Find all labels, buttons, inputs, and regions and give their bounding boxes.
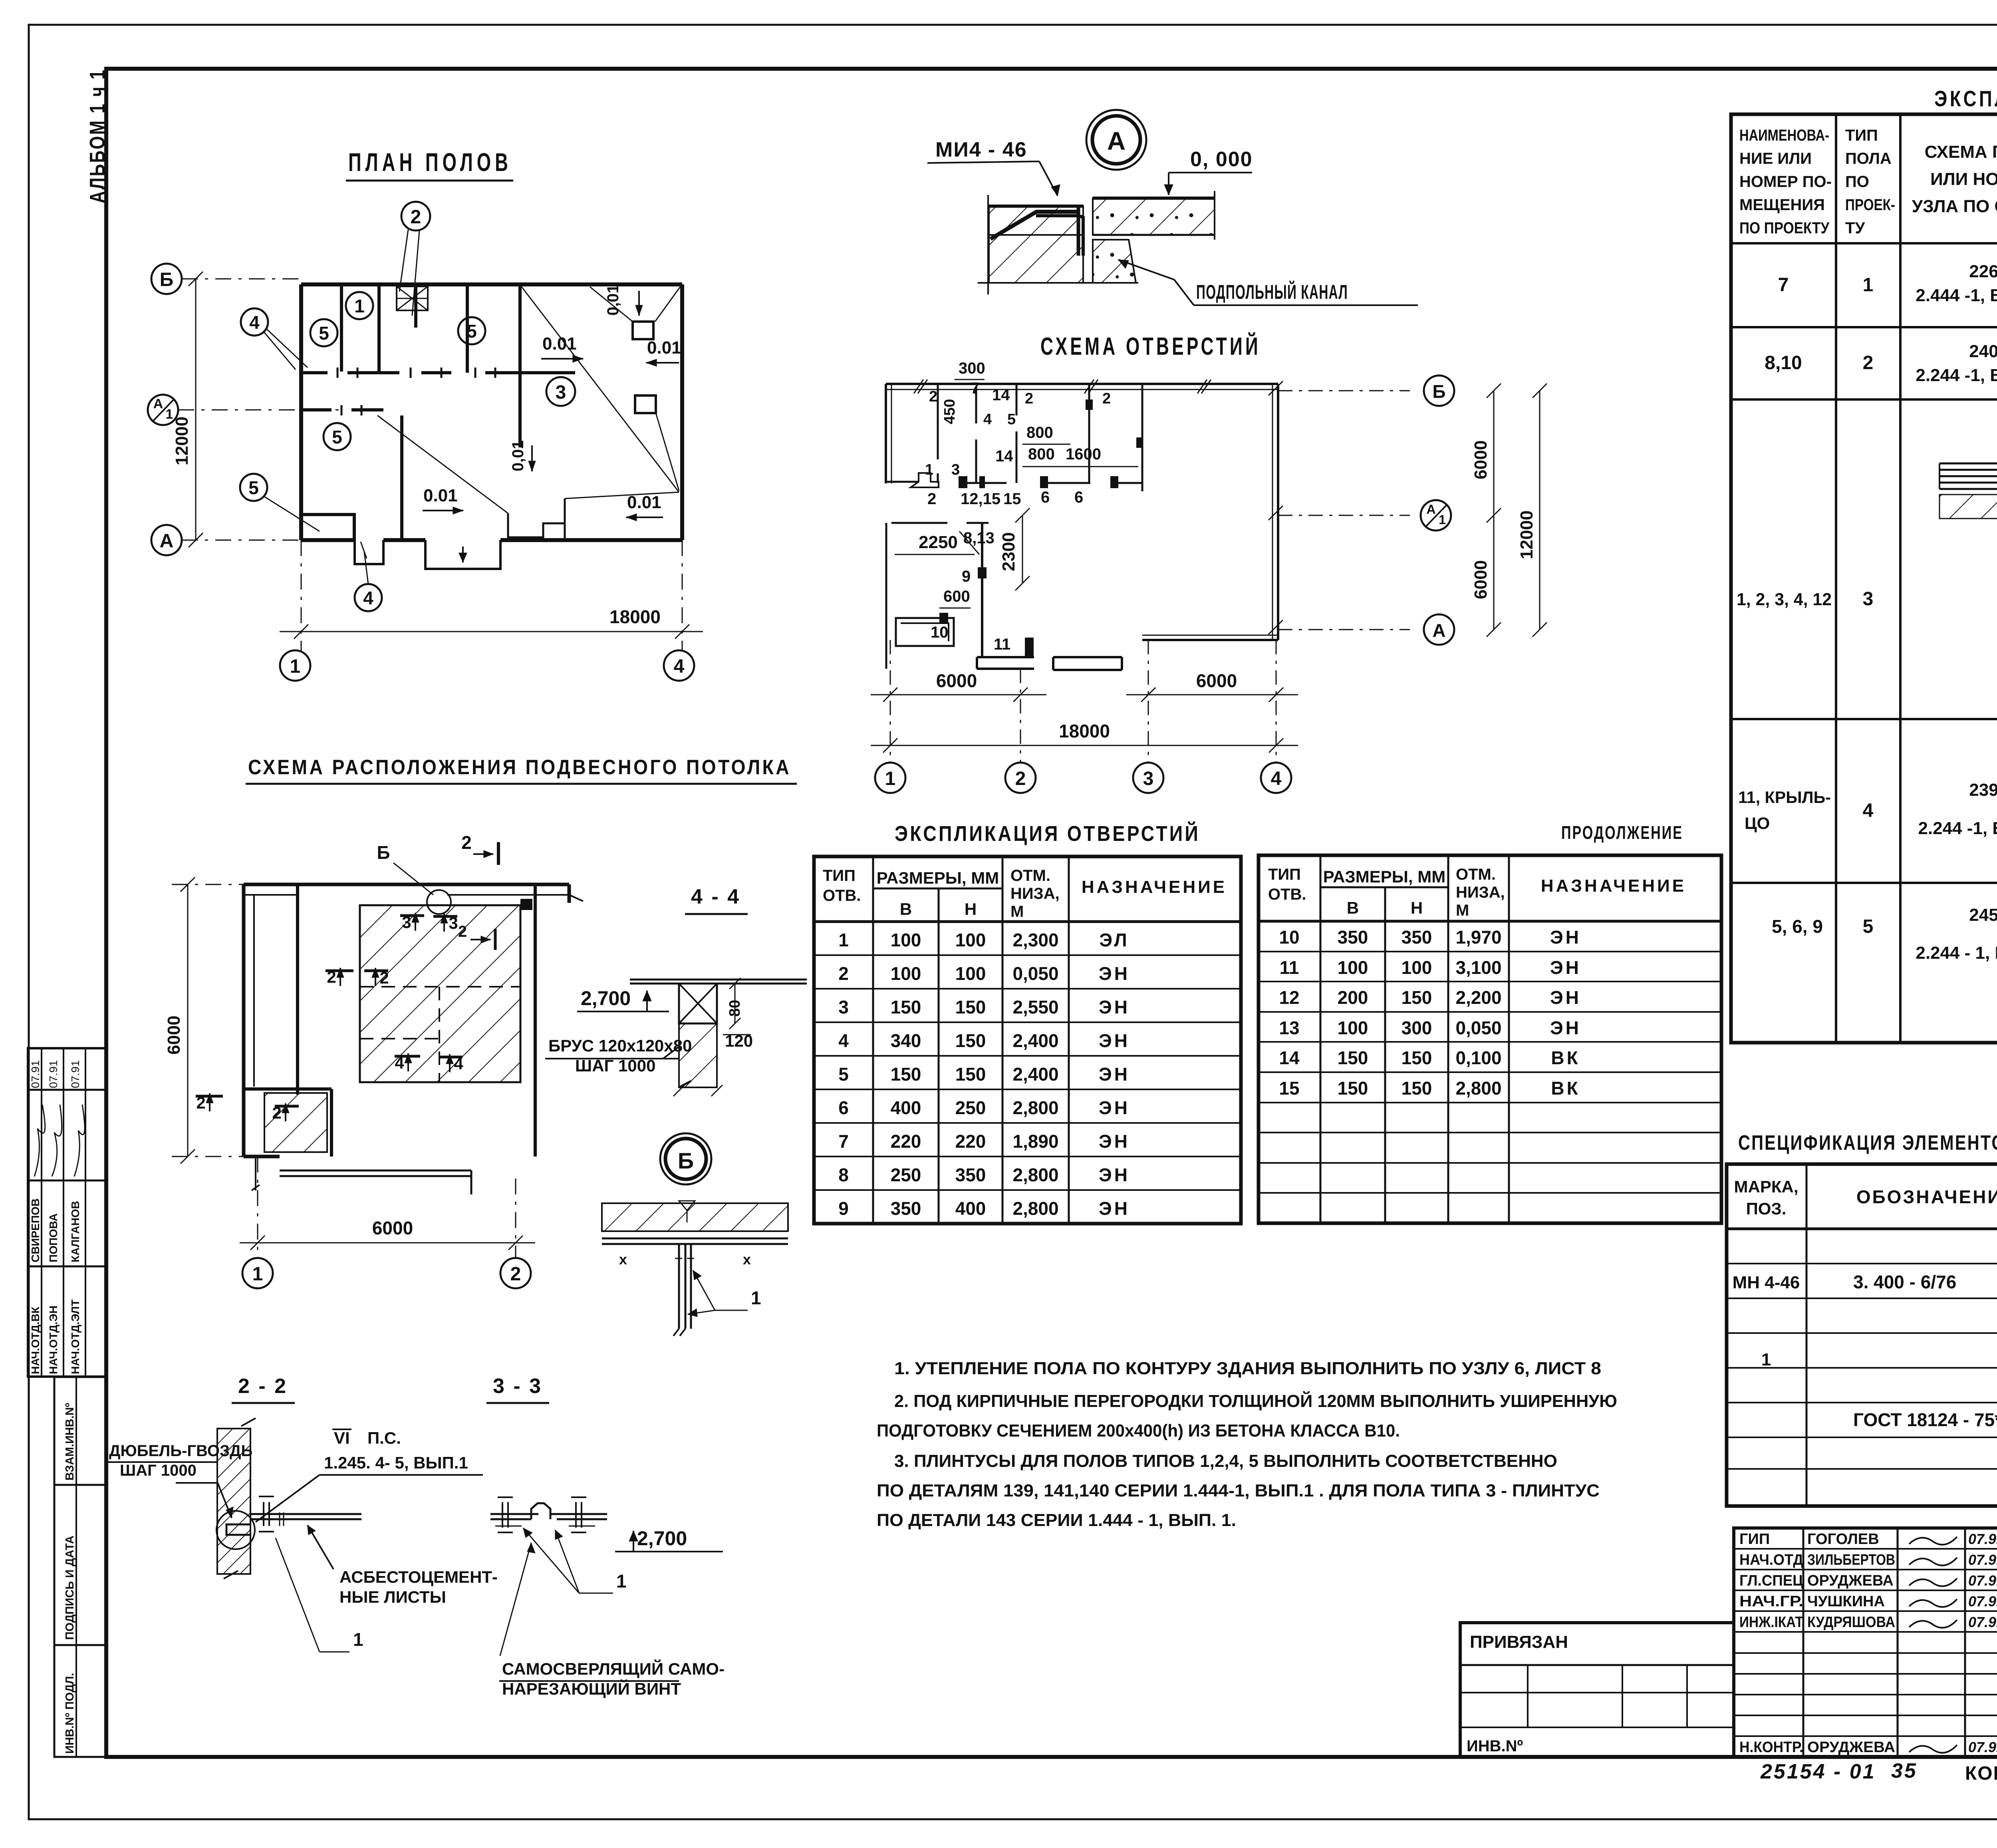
svg-text:В: В — [900, 900, 912, 918]
label circle 5 b — [458, 317, 485, 344]
svg-text:ПО ДЕТАЛИ 143 СЕРИИ 1.444 -: ПО ДЕТАЛИ 143 СЕРИИ 1.444 - 1, ВЫП. 1. — [877, 1510, 1236, 1530]
svg-text:245: 245 — [1969, 905, 1997, 925]
svg-text:НАРЕЗАЮЩИЙ ВИНТ: НАРЕЗАЮЩИЙ ВИНТ — [502, 1679, 681, 1698]
svg-text:МИ4 - 46: МИ4 - 46 — [935, 138, 1027, 161]
svg-text:ПРИВЯЗАН: ПРИВЯЗАН — [1470, 1632, 1568, 1652]
title: Спецификация элементов пола и подвесного потолка — [1738, 1131, 1997, 1155]
svg-text:0, 000: 0, 000 — [1190, 148, 1253, 171]
svg-text:2: 2 — [1863, 352, 1874, 374]
svg-text:11: 11 — [994, 636, 1010, 653]
holes plan lower dimension labels — [895, 508, 1030, 653]
dimension 18000 with grid circles 1 and 4 — [280, 540, 703, 681]
svg-text:ЭН: ЭН — [1099, 997, 1130, 1017]
svg-text:07.91: 07.91 — [69, 1060, 81, 1088]
svg-text:ЭН: ЭН — [1550, 1017, 1581, 1038]
title: Схема расположения подвесного потолка — [246, 756, 797, 784]
svg-text:2,200: 2,200 — [1455, 987, 1501, 1008]
svg-text:14: 14 — [1279, 1047, 1300, 1068]
svg-text:1: 1 — [290, 656, 301, 677]
svg-text:2,800: 2,800 — [1012, 1164, 1058, 1185]
svg-text:ОБОЗНАЧЕНИЕ: ОБОЗНАЧЕНИЕ — [1856, 1186, 1997, 1207]
svg-text:07.91: 07.91 — [47, 1060, 60, 1088]
svg-text:7: 7 — [838, 1131, 849, 1152]
svg-text:2,700: 2,700 — [637, 1527, 687, 1550]
svg-text:3: 3 — [951, 461, 960, 478]
label circle 5 a — [310, 319, 337, 346]
svg-text:1: 1 — [354, 296, 365, 316]
svg-text:П.С.: П.С. — [367, 1429, 401, 1447]
svg-text:1600: 1600 — [1066, 445, 1101, 463]
svg-text:2,400: 2,400 — [1012, 1064, 1058, 1085]
svg-text:2: 2 — [461, 832, 472, 853]
svg-text:Б: Б — [678, 1148, 694, 1173]
svg-text:РАЗМЕРЫ, ММ: РАЗМЕРЫ, ММ — [1323, 867, 1445, 886]
signature stamp table ГИП — [1734, 1528, 1997, 1757]
svg-text:1: 1 — [838, 930, 849, 950]
svg-text:25154 - 01: 25154 - 01 — [1760, 1760, 1876, 1783]
svg-text:11: 11 — [1280, 957, 1299, 978]
svg-text:400: 400 — [955, 1198, 986, 1219]
title: План полов — [346, 148, 513, 181]
svg-text:ШАГ 1000: ШАГ 1000 — [120, 1462, 197, 1479]
svg-text:800: 800 — [1028, 445, 1055, 463]
svg-text:4: 4 — [249, 312, 260, 333]
svg-text:220: 220 — [955, 1131, 986, 1152]
svg-text:0,050: 0,050 — [1012, 963, 1058, 984]
svg-text:12: 12 — [1279, 987, 1299, 1008]
floor plan interior walls — [301, 284, 575, 540]
svg-text:3. ПЛИНТУСЫ ДЛЯ ПОЛОВ ТИПО: 3. ПЛИНТУСЫ ДЛЯ ПОЛОВ ТИПОВ 1,2,4, 5 ВЫП… — [894, 1451, 1557, 1471]
svg-text:ВК: ВК — [1551, 1078, 1580, 1099]
svg-text:АСБЕСТОЦЕМЕНТ-: АСБЕСТОЦЕМЕНТ- — [339, 1568, 498, 1586]
svg-text:0,100: 0,100 — [1455, 1047, 1501, 1068]
svg-text:14: 14 — [995, 447, 1013, 465]
svg-text:2.244 - 1, ВЫП.4: 2.244 - 1, ВЫП.4 — [1916, 943, 1997, 963]
svg-text:2.244 -1, ВЫП. 4: 2.244 -1, ВЫП. 4 — [1916, 366, 1997, 385]
svg-text:07.91: 07.91 — [1968, 1552, 1997, 1568]
svg-text:150: 150 — [955, 997, 986, 1017]
svg-text:ОРУДЖЕВА: ОРУДЖЕВА — [1807, 1739, 1895, 1756]
label circle 2 with leaders — [399, 202, 430, 316]
svg-text:РАЗМЕРЫ, ММ: РАЗМЕРЫ, ММ — [877, 868, 999, 887]
ceiling beam lines below — [252, 895, 583, 1194]
svg-text:ПОЗ.: ПОЗ. — [1746, 1199, 1787, 1218]
svg-text:СВИРЕПОВ: СВИРЕПОВ — [29, 1198, 42, 1262]
svg-text:ИНВ.Nº ПОДЛ.: ИНВ.Nº ПОДЛ. — [64, 1673, 76, 1754]
svg-text:ПО ДЕТАЛЯМ 139, 141,140 СЕР: ПО ДЕТАЛЯМ 139, 141,140 СЕРИИ 1.444-1, В… — [877, 1481, 1600, 1500]
svg-text:Н: Н — [1411, 898, 1423, 917]
lower-left hatched area — [264, 1093, 327, 1152]
svg-text:2: 2 — [458, 923, 467, 940]
svg-text:ВК: ВК — [1551, 1047, 1580, 1068]
svg-text:ПО: ПО — [1845, 173, 1869, 191]
svg-text:12000: 12000 — [172, 417, 192, 465]
detail 2-2 — [216, 1375, 361, 1579]
svg-text:5: 5 — [248, 477, 259, 498]
detail 4-4 — [545, 885, 807, 1096]
left approval stamp table (rotated) — [28, 1048, 106, 1377]
svg-text:07.91: 07.91 — [1968, 1614, 1997, 1630]
svg-text:07.91: 07.91 — [1968, 1531, 1997, 1547]
svg-text:100: 100 — [891, 930, 921, 950]
svg-text:НАЧ.ОТД.ЭЛТ: НАЧ.ОТД.ЭЛТ — [69, 1300, 81, 1374]
svg-text:МН 4-46: МН 4-46 — [1733, 1273, 1800, 1292]
svg-text:100: 100 — [1401, 957, 1432, 978]
svg-text:6000: 6000 — [936, 670, 977, 691]
svg-text:5: 5 — [1863, 916, 1874, 937]
holes plan bottom dimensions and circles — [871, 640, 1298, 793]
svg-text:150: 150 — [891, 997, 921, 1017]
svg-text:18000: 18000 — [1059, 721, 1110, 741]
label circle 5 d with leader — [240, 474, 320, 531]
svg-text:ТИП: ТИП — [1268, 866, 1301, 883]
label circle 3 — [546, 377, 575, 406]
svg-text:2: 2 — [927, 490, 936, 508]
svg-text:ПОДПИСЬ И ДАТА: ПОДПИСЬ И ДАТА — [64, 1536, 76, 1640]
svg-text:ЭЛ: ЭЛ — [1099, 930, 1129, 950]
svg-text:ТИП: ТИП — [823, 867, 856, 884]
svg-text:ОТВ.: ОТВ. — [1268, 886, 1306, 903]
svg-text:2: 2 — [838, 963, 849, 984]
svg-text:Б: Б — [1432, 381, 1445, 402]
svg-text:ТУ: ТУ — [1845, 219, 1865, 237]
svg-text:350: 350 — [891, 1198, 921, 1219]
svg-text:5: 5 — [466, 321, 477, 342]
svg-text:НАЧ.ОТД.ЭН: НАЧ.ОТД.ЭН — [47, 1306, 60, 1374]
svg-text:239: 239 — [1969, 780, 1997, 800]
svg-text:VI: VI — [334, 1429, 350, 1447]
svg-text:100: 100 — [1338, 1017, 1368, 1038]
vertical dimension 12000 — [172, 279, 196, 540]
svg-text:ЭН: ЭН — [1550, 987, 1581, 1008]
svg-text:6000: 6000 — [372, 1218, 413, 1238]
svg-text:ЭН: ЭН — [1099, 1164, 1130, 1185]
svg-text:2: 2 — [1015, 768, 1026, 789]
svg-text:2: 2 — [1025, 390, 1033, 407]
holes plan right grid circles and dims — [1278, 376, 1547, 645]
drain squares — [590, 287, 680, 491]
svg-text:7: 7 — [971, 380, 979, 397]
svg-text:3,100: 3,100 — [1455, 957, 1501, 978]
svg-text:8,10: 8,10 — [1765, 352, 1802, 374]
svg-text:1,890: 1,890 — [1012, 1131, 1058, 1152]
section marks and labels on ceiling plan — [196, 832, 498, 1122]
holes plan interior walls upper-left — [886, 384, 1143, 491]
svg-text:СХЕМА ПОЛА: СХЕМА ПОЛА — [1925, 142, 1997, 162]
svg-text:3: 3 — [838, 997, 849, 1017]
svg-text:2,550: 2,550 — [1012, 997, 1058, 1017]
svg-text:8: 8 — [838, 1164, 849, 1185]
svg-text:ПОДГОТОВКУ СЕЧЕНИЕМ 200х400(: ПОДГОТОВКУ СЕЧЕНИЕМ 200х400(h) ИЗ БЕТОНА… — [877, 1421, 1400, 1441]
svg-text:УЗЛА ПО СЕРИИ: УЗЛА ПО СЕРИИ — [1912, 197, 1997, 216]
svg-text:ВЗАМ.ИНВ.Nº: ВЗАМ.ИНВ.Nº — [64, 1403, 76, 1480]
svg-text:ОТМ.: ОТМ. — [1456, 866, 1496, 883]
svg-text:0,050: 0,050 — [1455, 1017, 1501, 1038]
svg-text:НАИМЕНОВА-: НАИМЕНОВА- — [1739, 127, 1829, 144]
svg-text:2,300: 2,300 — [1012, 930, 1058, 950]
slope arrows 0.01 — [423, 284, 681, 521]
title: Экспликация отверстий — [895, 821, 1200, 846]
porch steps — [355, 540, 500, 569]
svg-text:ПО ПРОЕКТУ: ПО ПРОЕКТУ — [1739, 219, 1830, 237]
label Продолжение — [1561, 822, 1683, 843]
svg-text:3: 3 — [556, 382, 566, 403]
svg-text:4: 4 — [838, 1030, 849, 1051]
detail 3-3 — [486, 1375, 607, 1532]
svg-text:11, КРЫЛЬ-: 11, КРЫЛЬ- — [1738, 788, 1831, 807]
svg-text:5: 5 — [838, 1064, 849, 1085]
svg-text:ПЛАН ПОЛОВ: ПЛАН ПОЛОВ — [348, 148, 512, 177]
ceiling plan walls — [244, 884, 569, 1156]
album label АЛЬБОМ 1 ч 1 (rotated) — [85, 69, 109, 203]
svg-text:ПОЛА: ПОЛА — [1845, 150, 1892, 167]
svg-text:МАРКА,: МАРКА, — [1734, 1177, 1798, 1196]
svg-text:ЭН: ЭН — [1099, 1198, 1130, 1219]
label circle 5 c — [324, 423, 351, 450]
svg-text:1, 2, 3, 4, 12: 1, 2, 3, 4, 12 — [1737, 590, 1832, 609]
svg-text:350: 350 — [955, 1164, 986, 1185]
svg-text:5: 5 — [1007, 411, 1016, 428]
svg-text:600: 600 — [943, 588, 970, 605]
svg-text:220: 220 — [891, 1131, 921, 1152]
svg-text:12000: 12000 — [1517, 511, 1536, 559]
svg-text:Б: Б — [377, 842, 390, 863]
svg-text:4: 4 — [983, 411, 992, 428]
svg-text:14: 14 — [992, 386, 1010, 404]
svg-text:А: А — [1426, 502, 1435, 517]
vestibule step bottom-left — [301, 515, 354, 540]
svg-text:350: 350 — [1338, 927, 1368, 948]
grid line Б — [151, 264, 304, 294]
svg-text:2. ПОД КИРПИЧНЫЕ ПЕРЕГОРОДКИ: 2. ПОД КИРПИЧНЫЕ ПЕРЕГОРОДКИ ТОЛЩИНОЙ 12… — [894, 1391, 1617, 1411]
svg-text:100: 100 — [1338, 957, 1368, 978]
svg-text:САМОСВЕРЛЯЩИЙ САМО-: САМОСВЕРЛЯЩИЙ САМО- — [502, 1659, 725, 1678]
svg-text:340: 340 — [891, 1030, 921, 1051]
svg-text:МЕЩЕНИЯ: МЕЩЕНИЯ — [1739, 196, 1825, 214]
svg-text:7: 7 — [1778, 274, 1789, 296]
detail A callout circle — [1086, 110, 1146, 170]
floors explication table — [1731, 114, 1997, 1043]
svg-text:1: 1 — [1439, 513, 1446, 527]
svg-text:18000: 18000 — [609, 606, 661, 627]
svg-text:НАЗНАЧЕНИЕ: НАЗНАЧЕНИЕ — [1541, 876, 1686, 896]
svg-text:КОПИРОВАЛ ЕВСТЕГНЕЕВА: КОПИРОВАЛ ЕВСТЕГНЕЕВА — [1965, 1763, 1997, 1784]
svg-text:ПОПОВА: ПОПОВА — [47, 1213, 60, 1262]
svg-text:1: 1 — [353, 1629, 363, 1650]
svg-text:ОТМ.: ОТМ. — [1010, 867, 1050, 884]
svg-text:4: 4 — [363, 588, 373, 608]
svg-text:5, 6, 9: 5, 6, 9 — [1772, 916, 1823, 937]
svg-text:150: 150 — [891, 1064, 921, 1085]
svg-text:ПРОДОЛЖЕНИЕ: ПРОДОЛЖЕНИЕ — [1561, 822, 1683, 843]
svg-text:М: М — [1010, 903, 1024, 920]
svg-text:ТИП: ТИП — [1845, 127, 1878, 144]
svg-text:х: х — [619, 1251, 627, 1268]
svg-text:6: 6 — [1041, 489, 1050, 506]
svg-text:150: 150 — [1338, 1078, 1368, 1099]
linked box Привязан — [1460, 1623, 1734, 1757]
svg-text:ДЮБЕЛЬ-ГВОЗДЬ: ДЮБЕЛЬ-ГВОЗДЬ — [109, 1442, 252, 1460]
svg-text:ЦО: ЦО — [1745, 814, 1770, 833]
svg-text:150: 150 — [955, 1030, 986, 1051]
svg-text:4: 4 — [1863, 800, 1874, 821]
svg-text:6000: 6000 — [164, 1015, 184, 1055]
svg-text:150: 150 — [1401, 1078, 1432, 1099]
svg-text:2,700: 2,700 — [581, 987, 631, 1009]
svg-text:ОРУДЖЕВА: ОРУДЖЕВА — [1807, 1572, 1894, 1589]
label circle 4 bottom with leader — [355, 552, 382, 611]
svg-text:07.91: 07.91 — [1968, 1739, 1997, 1755]
svg-text:ЭН: ЭН — [1099, 1064, 1130, 1085]
svg-text:СХЕМА РАСПОЛОЖЕНИЯ ПОДВЕСНОГО: СХЕМА РАСПОЛОЖЕНИЯ ПОДВЕСНОГО ПОТОЛКА — [248, 756, 791, 779]
svg-text:1: 1 — [252, 1264, 263, 1285]
svg-text:ПОДПОЛЬНЫЙ КАНАЛ: ПОДПОЛЬНЫЙ КАНАЛ — [1196, 280, 1348, 303]
svg-text:ЭН: ЭН — [1550, 957, 1581, 978]
svg-text:ИЛИ НОМЕР: ИЛИ НОМЕР — [1930, 169, 1997, 189]
svg-text:150: 150 — [1401, 1047, 1432, 1068]
specification table — [1727, 1164, 1997, 1506]
svg-text:А: А — [1107, 127, 1126, 155]
svg-text:3: 3 — [1863, 588, 1874, 610]
svg-text:15: 15 — [1279, 1078, 1299, 1099]
svg-text:НОМЕР ПО-: НОМЕР ПО- — [1739, 173, 1832, 191]
svg-text:400: 400 — [891, 1097, 921, 1118]
svg-text:ЭКСПЛИКАЦИЯ ОТВЕРСТИЙ: ЭКСПЛИКАЦИЯ ОТВЕРСТИЙ — [895, 821, 1200, 846]
svg-text:6000: 6000 — [1196, 670, 1237, 691]
svg-text:100: 100 — [955, 963, 986, 984]
svg-text:2250: 2250 — [919, 533, 958, 552]
svg-text:6000: 6000 — [1471, 560, 1491, 599]
svg-text:100: 100 — [955, 930, 986, 950]
svg-text:1.245. 4- 5, ВЫП.1: 1.245. 4- 5, ВЫП.1 — [324, 1453, 468, 1472]
label МИ4-46 with leader — [927, 138, 1060, 196]
svg-text:НИЕ ИЛИ: НИЕ ИЛИ — [1739, 150, 1812, 167]
svg-text:6: 6 — [1074, 489, 1083, 506]
svg-text:Н.КОНТР.: Н.КОНТР. — [1739, 1739, 1803, 1756]
svg-text:ЭН: ЭН — [1099, 963, 1130, 984]
svg-text:200: 200 — [1338, 987, 1368, 1008]
svg-text:5: 5 — [332, 427, 342, 447]
grid line А/1 — [148, 395, 343, 425]
ceiling plan grid marks — [164, 877, 535, 1288]
svg-text:ЭН: ЭН — [1099, 1030, 1130, 1051]
general notes text — [877, 1359, 1617, 1530]
svg-text:КАЛГАНОВ: КАЛГАНОВ — [69, 1201, 81, 1262]
left margin stamp ПОДПИСЬ И ДАТА — [54, 1485, 106, 1645]
detail Б drawing — [602, 1201, 788, 1336]
svg-text:ИНЖ.IКАТ: ИНЖ.IКАТ — [1739, 1614, 1803, 1631]
svg-text:СПЕЦИФИКАЦИЯ ЭЛЕМЕНТОВ ПОЛА: СПЕЦИФИКАЦИЯ ЭЛЕМЕНТОВ ПОЛА И ПОДВЕСНОГО… — [1738, 1131, 1997, 1155]
svg-text:6: 6 — [838, 1097, 849, 1118]
svg-text:КУДРЯШОВА: КУДРЯШОВА — [1807, 1614, 1895, 1631]
svg-text:ЭКСПЛИКАЦИЯ ПОЛОВ: ЭКСПЛИКАЦИЯ ПОЛОВ — [1934, 86, 1997, 111]
svg-text:СХЕМА ОТВЕРСТИЙ: СХЕМА ОТВЕРСТИЙ — [1040, 332, 1261, 360]
svg-text:300: 300 — [1401, 1017, 1432, 1038]
svg-text:НАЗНАЧЕНИЕ: НАЗНАЧЕНИЕ — [1082, 877, 1227, 897]
svg-text:2,800: 2,800 — [1012, 1198, 1058, 1219]
labels for detail 3-3 — [498, 1527, 725, 1698]
svg-text:2.444 -1, ВЫП. 4: 2.444 -1, ВЫП. 4 — [1916, 286, 1997, 305]
left margin stamp ВЗАМ.ИНВ.N — [54, 1377, 106, 1485]
svg-text:ПРОЕК-: ПРОЕК- — [1845, 196, 1895, 214]
svg-text:150: 150 — [955, 1064, 986, 1085]
svg-text:07.91: 07.91 — [29, 1060, 42, 1088]
svg-text:0.01: 0.01 — [423, 486, 458, 505]
svg-text:2: 2 — [1102, 390, 1111, 407]
svg-text:2,800: 2,800 — [1012, 1097, 1058, 1118]
title: Схема отверстий — [1040, 332, 1261, 360]
svg-text:ГЛ.СПЕЦ: ГЛ.СПЕЦ — [1739, 1572, 1803, 1589]
svg-text:А: А — [160, 531, 174, 552]
svg-text:0.01: 0.01 — [627, 493, 661, 512]
bottom annotations — [1760, 1759, 1997, 1784]
svg-text:ЭН: ЭН — [1099, 1131, 1130, 1152]
holes explication table right — [1259, 855, 1721, 1223]
svg-text:4 - 4: 4 - 4 — [691, 885, 740, 908]
svg-text:1: 1 — [1863, 274, 1874, 296]
svg-text:НИЗА,: НИЗА, — [1456, 884, 1505, 901]
svg-text:15: 15 — [1003, 490, 1021, 508]
label circle 4 with leaders — [241, 308, 308, 370]
svg-text:НАЧ.ГР.: НАЧ.ГР. — [1739, 1593, 1803, 1610]
svg-text:3 - 3: 3 - 3 — [493, 1375, 542, 1398]
left margin stamp ИНВ.N ПОДЛ. — [54, 1645, 106, 1757]
svg-text:250: 250 — [891, 1164, 921, 1185]
svg-text:35: 35 — [1891, 1759, 1918, 1782]
svg-text:1. УТЕПЛЕНИЕ ПОЛА ПО КОНТУ: 1. УТЕПЛЕНИЕ ПОЛА ПО КОНТУРУ ЗДАНИЯ ВЫПО… — [894, 1359, 1601, 1378]
svg-text:2.244 -1, ВЫП.4: 2.244 -1, ВЫП.4 — [1918, 819, 1997, 838]
svg-text:1: 1 — [616, 1571, 627, 1592]
svg-text:1: 1 — [1761, 1350, 1771, 1369]
holes plan outer walls — [886, 384, 1278, 640]
stair grate symbol — [397, 286, 428, 310]
svg-text:9: 9 — [838, 1198, 849, 1219]
title: Экспликация полов — [1931, 86, 1997, 113]
holes plan lower-left rooms — [886, 523, 1122, 670]
svg-text:300: 300 — [959, 360, 985, 377]
label 0,000 with leader — [1164, 148, 1253, 195]
svg-text:НАЧ.ОТД.ВК: НАЧ.ОТД.ВК — [29, 1306, 42, 1374]
svg-text:800: 800 — [1026, 424, 1053, 441]
svg-text:2: 2 — [510, 1264, 521, 1285]
svg-text:10: 10 — [931, 624, 949, 641]
svg-text:ГИП: ГИП — [1739, 1531, 1770, 1548]
svg-text:ЭН: ЭН — [1099, 1097, 1130, 1118]
svg-text:А: А — [1432, 620, 1445, 641]
svg-text:2300: 2300 — [999, 532, 1018, 571]
svg-text:х: х — [743, 1251, 751, 1268]
svg-text:1: 1 — [925, 461, 933, 478]
svg-text:ЗИЛЬБЕРТОВ: ЗИЛЬБЕРТОВ — [1807, 1552, 1895, 1568]
svg-text:НАЧ.ОТД: НАЧ.ОТД — [1739, 1552, 1803, 1568]
detail Б callout circle — [660, 1133, 711, 1184]
svg-text:НИЗА,: НИЗА, — [1010, 885, 1060, 902]
svg-text:226: 226 — [1969, 262, 1997, 281]
svg-text:ЭН: ЭН — [1550, 927, 1581, 948]
svg-text:НЫЕ ЛИСТЫ: НЫЕ ЛИСТЫ — [339, 1588, 446, 1606]
svg-text:1,970: 1,970 — [1455, 927, 1501, 948]
svg-text:2,800: 2,800 — [1455, 1078, 1501, 1099]
svg-text:3. 400 - 6/76: 3. 400 - 6/76 — [1853, 1272, 1956, 1292]
svg-text:Н: Н — [965, 900, 977, 918]
svg-text:0.01: 0.01 — [647, 338, 681, 358]
svg-text:ГОГОЛЕВ: ГОГОЛЕВ — [1807, 1531, 1879, 1548]
door opening ticks — [337, 368, 495, 415]
svg-text:07.91: 07.91 — [1968, 1593, 1997, 1610]
svg-text:1: 1 — [885, 768, 896, 789]
svg-text:0,01: 0,01 — [509, 440, 527, 471]
labels for detail 2-2 — [106, 1429, 498, 1652]
